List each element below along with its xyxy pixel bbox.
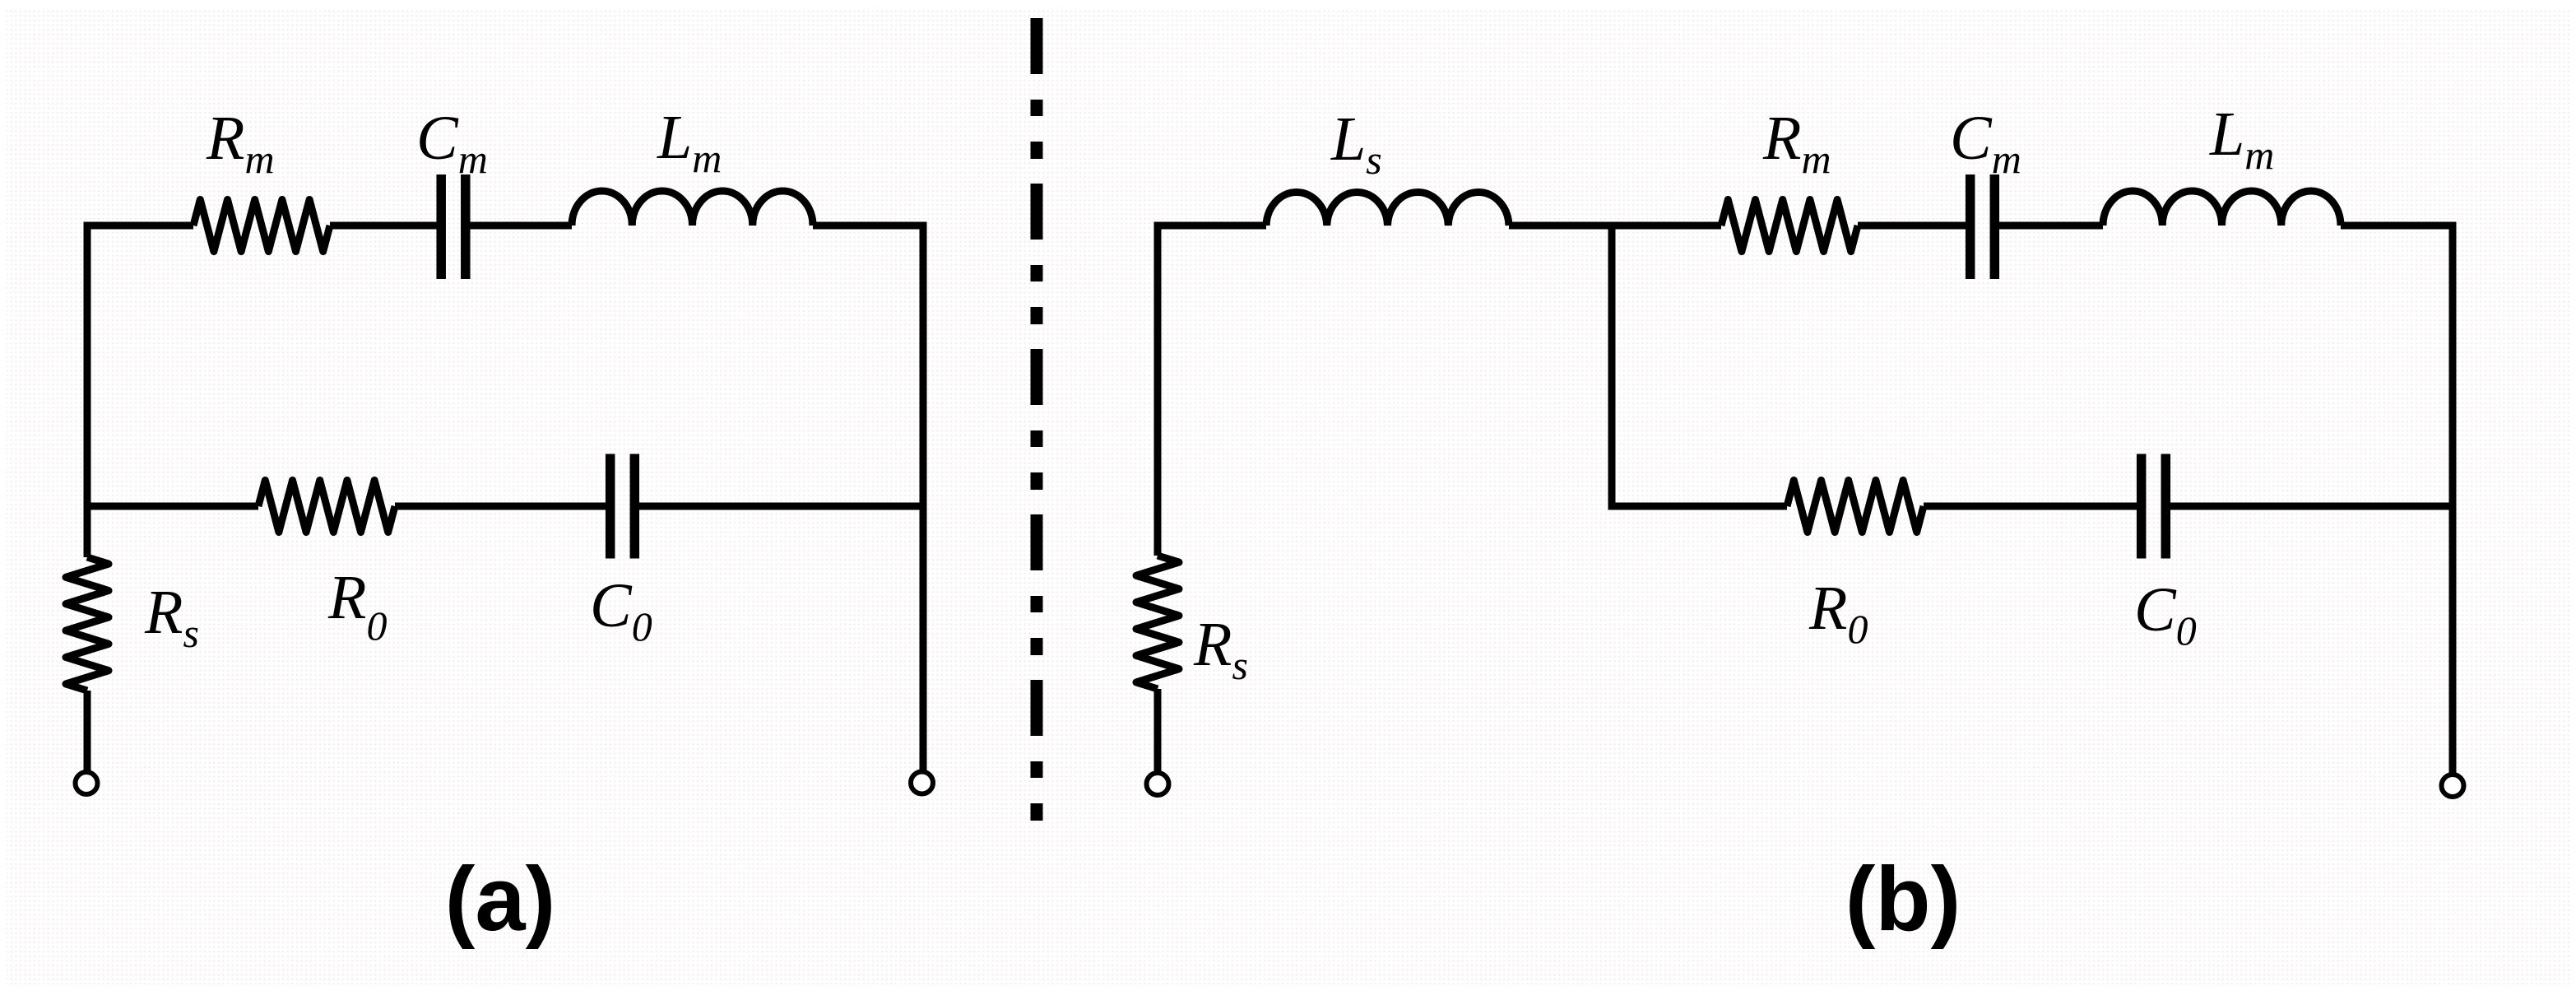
wire: (a) bottom-left to R0: [87, 503, 258, 510]
resistor Rm (b): [1721, 200, 1858, 252]
terminal (b) right: [2442, 775, 2464, 797]
dashed divider line: [1031, 18, 1043, 823]
capacitor C0 (a): [610, 454, 635, 559]
resistor R0 (b): [1787, 481, 1924, 533]
wire: (b) C0 to right vertical: [2169, 503, 2453, 510]
inductor Ls (b): [1266, 193, 1509, 226]
svg-text:(a): (a): [445, 849, 555, 950]
inductor Lm (b): [2103, 191, 2341, 226]
wire: (b) left vertical + top-left segment: [1158, 226, 1266, 556]
terminal (b) left: [1147, 773, 1169, 795]
wire: (b) Ls to Rm: [1509, 222, 1721, 230]
resistor Rs (a): [66, 557, 109, 691]
terminal (a) right: [911, 772, 933, 794]
wire: (a) R0 to C0: [395, 503, 607, 510]
resistor R0 (a): [258, 481, 395, 533]
wire: (b) Rs to left terminal: [1154, 689, 1162, 774]
wire: (a) C0 to right vertical: [638, 503, 923, 510]
capacitor Cm (a): [441, 174, 466, 279]
wire: (a) Rm to Cm: [330, 222, 439, 230]
capacitor Cm (b): [1970, 174, 1995, 279]
wire: (b) Lm to right corner, right vertical: [2341, 226, 2453, 774]
wire: (b) R0 to C0: [1924, 503, 2138, 510]
wire: (b) junction vertical and bottom-left segment: [1612, 226, 1787, 506]
wire: (a) left vertical + top-left segment: [87, 226, 193, 557]
inductor Lm (a): [572, 191, 813, 226]
wire: (a) Rs to left terminal: [84, 691, 91, 771]
wire: (a) Lm to right corner, right vertical: [813, 226, 923, 771]
svg-text:(b): (b): [1845, 849, 1961, 950]
resistor Rm (a): [193, 200, 330, 252]
resistor Rs (b): [1136, 556, 1179, 689]
capacitor C0 (b): [2142, 454, 2166, 559]
terminal (a) left: [76, 772, 98, 794]
wire: (b) Cm to Lm: [1998, 222, 2103, 230]
wire: (a) Cm to Lm: [468, 222, 572, 230]
wire: (b) Rm to Cm: [1858, 222, 1967, 230]
